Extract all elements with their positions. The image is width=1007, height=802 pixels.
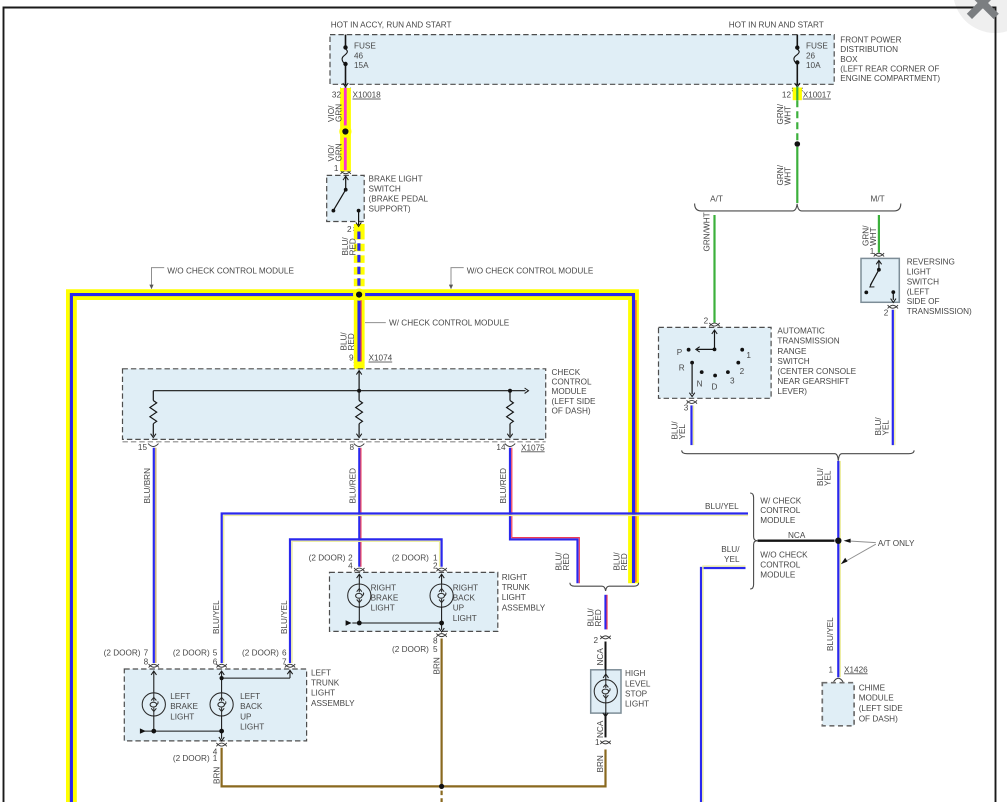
wire BLU/RED stripe — [360, 448, 362, 567]
fuse F26 10A element — [794, 35, 799, 86]
svg-text:X1075: X1075 — [521, 443, 545, 452]
wire BLU/YEL ATRS pin3 — [690, 405, 692, 445]
svg-text:(2 DOOR): (2 DOOR) — [173, 754, 210, 763]
svg-text:W/O CHECK CONTROL MODULE: W/O CHECK CONTROL MODULE — [467, 267, 594, 276]
wire GRN/WHT dashed — [796, 100, 798, 141]
svg-text:(2 DOOR): (2 DOOR) — [392, 554, 429, 563]
reversing switch arrow up — [876, 260, 881, 264]
svg-text:2: 2 — [884, 309, 889, 318]
svg-text:HOT IN RUN AND START: HOT IN RUN AND START — [729, 21, 824, 30]
svg-text:1: 1 — [595, 738, 600, 747]
front power distribution box (fuse box) — [330, 35, 834, 85]
brace: A/T - M/T split — [695, 204, 901, 211]
connector reversing switch pin 1 — [874, 253, 884, 256]
svg-text:6: 6 — [282, 648, 287, 657]
svg-text:GRN/WHT: GRN/WHT — [862, 225, 878, 246]
svg-text:X10018: X10018 — [353, 91, 382, 100]
svg-text:X1426: X1426 — [844, 665, 868, 674]
wire NCA upper — [605, 642, 607, 670]
wire NCA — [758, 540, 835, 542]
svg-text:12: 12 — [782, 91, 792, 100]
svg-text:2: 2 — [593, 636, 598, 645]
svg-text:(2 DOOR): (2 DOOR) — [309, 554, 346, 563]
svg-text:X10017: X10017 — [803, 91, 832, 100]
wire BLU/YEL stripe reversing — [894, 310, 896, 445]
ATRS contact dot — [700, 370, 704, 374]
svg-text:X1074: X1074 — [369, 354, 393, 363]
ground-side triangle left trunk — [140, 728, 146, 733]
connector right trunk ground pin — [436, 634, 446, 637]
reversing switch left contact — [864, 291, 868, 295]
svg-text:GRN/WHT: GRN/WHT — [703, 212, 712, 251]
wire BLU/RED junction to X1074 (blue core) — [357, 300, 360, 362]
junction of highlighted loop — [356, 292, 362, 298]
ATRS contact dot — [740, 348, 744, 352]
svg-text:RIGHTBRAKELIGHT: RIGHTBRAKELIGHT — [371, 583, 399, 612]
svg-text:BRN: BRN — [596, 755, 605, 772]
leader: W/O check control module right — [451, 268, 464, 286]
svg-text:NCA: NCA — [596, 648, 605, 666]
wire GRN/WHT solid — [796, 147, 798, 203]
svg-text:A/T ONLY: A/T ONLY — [878, 539, 915, 548]
svg-text:A/T: A/T — [710, 194, 723, 203]
bus junction at mid resistor — [357, 389, 361, 393]
connector X1075 boundary line — [123, 441, 546, 443]
svg-text:BLU/YEL: BLU/YEL — [826, 617, 835, 651]
left trunk light assembly box — [124, 669, 306, 741]
arrowhead at wire — [841, 558, 848, 564]
svg-text:1: 1 — [334, 164, 339, 173]
brake light switch upper contact — [344, 188, 348, 192]
svg-text:5: 5 — [213, 648, 218, 657]
wire BLU/YEL main to chime — [837, 461, 839, 677]
svg-text:9: 9 — [349, 354, 354, 363]
automatic transmission range switch box — [659, 327, 772, 398]
svg-text:BLU/RED: BLU/RED — [555, 552, 571, 571]
svg-text:YEL: YEL — [724, 555, 740, 564]
connector X1075 pin 15 cup — [148, 444, 158, 447]
reversing switch blade — [870, 270, 879, 286]
wire highlight: main highlighted circuit loop (yellow) — [71, 295, 633, 802]
arrow into left trunk pin 6/7 — [287, 670, 292, 674]
junction NCA / BLU/YEL — [835, 538, 841, 544]
svg-text:2: 2 — [704, 316, 709, 325]
wire BLU/YEL backup lights net — [290, 539, 442, 663]
wire BLU/YEL stripe — [224, 515, 748, 663]
connector left backup light pin — [216, 664, 226, 667]
wire BLU/RED pin14 stripe — [512, 448, 580, 583]
svg-text:3: 3 — [684, 404, 689, 413]
connector ATRS pin 2 — [709, 323, 719, 326]
wire BLU/RED stripe right leg — [635, 300, 637, 582]
bus junction at right resistor — [508, 389, 512, 393]
bulb: high level stop light — [594, 680, 617, 703]
svg-text:BLU/RED: BLU/RED — [348, 468, 357, 504]
svg-text:14: 14 — [496, 443, 506, 452]
svg-text:1: 1 — [746, 351, 751, 360]
reversing switch blade arrowhead — [870, 282, 875, 287]
svg-text:BLU/BRN: BLU/BRN — [143, 468, 152, 504]
brake light switch blade — [333, 190, 345, 211]
svg-text:D: D — [712, 382, 718, 391]
wire highlight: X10017 stub (yellow) — [793, 88, 802, 101]
brake light switch lower contact — [357, 209, 361, 213]
svg-text:BLU/YEL: BLU/YEL — [705, 502, 739, 511]
check module resistor at x=359.1 — [356, 401, 363, 424]
check module resistor at x=153.3 — [150, 401, 157, 424]
leader: A/T only to junction — [849, 541, 876, 543]
svg-text:(2 DOOR): (2 DOOR) — [104, 648, 141, 657]
connector at brake light switch pin 1 — [341, 171, 351, 174]
leader arrowhead right — [449, 285, 453, 290]
check module resistor at x=510.0 — [507, 401, 514, 424]
svg-text:GRN/WHT: GRN/WHT — [776, 103, 792, 124]
wire BRN right trunk to ground bus — [441, 639, 443, 787]
svg-text:8: 8 — [144, 658, 149, 667]
svg-text:4: 4 — [348, 562, 353, 571]
svg-text:GRN/WHT: GRN/WHT — [776, 164, 792, 185]
svg-text:1: 1 — [828, 665, 833, 674]
left trunk internal bus — [142, 730, 221, 732]
svg-text:3: 3 — [730, 376, 735, 385]
brace: W/ and W/O check control module — [750, 493, 757, 589]
left trunk internal link 6/7 to backup — [222, 677, 290, 679]
ATRS R to pin 3 line — [691, 363, 693, 394]
svg-text:32: 32 — [332, 91, 342, 100]
svg-text:W/ CHECK CONTROL MODULE: W/ CHECK CONTROL MODULE — [389, 319, 510, 328]
svg-text:BLU/YEL: BLU/YEL — [212, 600, 221, 634]
connector X10018 pin 32 — [340, 88, 350, 91]
svg-text:BRN: BRN — [212, 767, 221, 784]
wire BLU/YEL w/ check control module horizontal — [222, 514, 748, 664]
wire BLU/YEL W/O check drop — [701, 568, 746, 802]
wire BRN dashed continuation — [441, 791, 443, 802]
ATRS contact dot — [687, 348, 691, 352]
arrowhead at junction — [844, 539, 851, 543]
svg-text:2: 2 — [347, 225, 352, 234]
svg-text:7: 7 — [144, 648, 149, 657]
svg-text:(2 DOOR): (2 DOOR) — [242, 648, 279, 657]
svg-text:BLU/: BLU/ — [721, 545, 740, 554]
svg-text:1: 1 — [213, 754, 218, 763]
right trunk light assembly box — [330, 572, 498, 631]
svg-text:(2 DOOR): (2 DOOR) — [392, 645, 429, 654]
svg-text:8: 8 — [349, 443, 354, 452]
splice junction on VIO/GRN wire — [342, 128, 348, 134]
leader: W/O check control module left — [152, 268, 165, 286]
leader: W/ check control module — [365, 322, 386, 324]
ATRS entry arrow — [712, 330, 717, 334]
connector X1075 pin 8 cup — [354, 444, 364, 447]
svg-text:N: N — [697, 379, 703, 388]
svg-text:BLU/RED: BLU/RED — [340, 332, 356, 351]
bulb: right back up light — [430, 584, 453, 607]
bulb: left brake light — [142, 693, 165, 716]
wire BLU/YEL W/O stripe — [703, 566, 746, 802]
svg-text:VIO/GRN: VIO/GRN — [327, 143, 343, 161]
ground bus junction — [439, 784, 444, 789]
connector X10017 pin 12 — [792, 88, 802, 91]
wire BLU/RED dashed (W/ check control module) — [357, 232, 360, 290]
wire BLU/RED pin8 to right brake light — [358, 448, 360, 567]
wire BLU/RED pin14 to brace — [510, 448, 578, 583]
svg-text:M/T: M/T — [871, 194, 885, 203]
wire BLU/RED stripe stop light — [606, 595, 608, 630]
svg-text:BLU/YEL: BLU/YEL — [280, 600, 289, 634]
svg-text:15: 15 — [138, 443, 148, 452]
svg-text:R: R — [679, 364, 685, 373]
wire BLU/BRN stripe — [155, 448, 157, 663]
connector left trunk pin 6/7 — [285, 664, 295, 667]
wire VIO/GRN vertical — [344, 88, 347, 170]
ATRS contact dot — [690, 361, 694, 365]
wire NCA lower — [605, 713, 607, 737]
svg-text:P: P — [677, 348, 683, 357]
reversing light switch box — [861, 258, 899, 302]
close button X — [969, 0, 996, 16]
brake light switch box — [327, 175, 365, 221]
leader: A/T only to wire — [845, 544, 876, 561]
chime module box — [822, 683, 854, 726]
bulb: right brake light — [348, 584, 371, 607]
bulb: left back up light — [210, 693, 233, 716]
ATRS contact dot — [736, 361, 740, 365]
wire BRN ground bus — [222, 748, 606, 787]
wire BLU/BRN pin15 to left trunk — [153, 448, 155, 663]
connector stop light pin 2 — [600, 636, 610, 639]
wire BLU/YEL stripe ATRS — [693, 405, 695, 445]
wire BLU/YEL stripe main — [839, 461, 841, 677]
splice on GRN/WHT — [795, 141, 801, 147]
ATRS selector line to P — [697, 348, 715, 350]
connector stop light pin 1 — [600, 741, 610, 744]
connector left brake light pin — [149, 664, 159, 667]
brace: combine BLU/RED to stop light — [570, 583, 639, 591]
connector X1074 pin 9 — [354, 362, 364, 365]
check module internal bus — [153, 390, 525, 392]
svg-text:BLU/RED: BLU/RED — [613, 552, 629, 571]
ATRS contact dot — [713, 374, 717, 378]
svg-text:2: 2 — [740, 367, 745, 376]
svg-text:(2 DOOR): (2 DOOR) — [173, 648, 210, 657]
brake light switch contact arrow up — [343, 176, 348, 180]
wire BLU/YEL reversing switch pin2 — [892, 310, 894, 445]
high level stop light box — [591, 670, 621, 713]
connector at brake light switch pin 2 — [354, 227, 364, 230]
wire BLU/YEL backup stripe — [292, 541, 440, 663]
ground-side triangle right trunk — [346, 620, 352, 625]
wire GRN/WHT M/T branch — [878, 215, 880, 253]
svg-text:BRN: BRN — [433, 657, 442, 674]
svg-text:VIO/GRN: VIO/GRN — [327, 104, 343, 122]
leader arrowhead left — [149, 285, 153, 290]
svg-text:BLU/RED: BLU/RED — [341, 237, 357, 256]
svg-text:BLU/RED: BLU/RED — [587, 608, 603, 627]
brace: combine A/T and M/T BLU/YEL — [682, 450, 914, 460]
wire highlight: VIO/GRN fuse output (yellow) — [340, 88, 351, 171]
check module entry arrow — [356, 371, 361, 375]
reversing switch right contact — [891, 290, 895, 294]
svg-text:NCA: NCA — [788, 531, 806, 540]
check control module box — [123, 369, 546, 440]
connector right backup light pin — [436, 568, 446, 571]
connector X1075 pin 14 cup — [505, 444, 515, 447]
connector right brake light pin — [354, 568, 364, 571]
right trunk internal bus — [352, 622, 441, 624]
wire highlight: brake switch pin2 dashed (yellow) — [354, 232, 365, 289]
svg-text:NCA: NCA — [596, 720, 605, 738]
svg-text:W/O CHECK CONTROL MODULE: W/O CHECK CONTROL MODULE — [167, 267, 294, 276]
connector ATRS pin 3 — [687, 400, 697, 403]
wire BLU/RED main loop (blue core) — [71, 295, 633, 802]
fuse F46 15A element — [342, 35, 347, 86]
svg-text:5: 5 — [433, 645, 438, 654]
connector reversing switch pin 2 — [888, 305, 898, 308]
wire GRN/WHT A/T branch — [713, 215, 715, 323]
connector X1426 pin 1 entry arc — [834, 678, 843, 682]
ATRS contact dot — [726, 370, 730, 374]
close button circle — [953, 0, 1007, 33]
wire BLU/RED to stop light — [604, 595, 606, 630]
wire GRN/WHT stub in highlight — [796, 87, 798, 101]
junction above left backup bulb — [220, 676, 224, 680]
reversing switch upper contact — [877, 268, 881, 272]
svg-text:BLU/RED: BLU/RED — [499, 468, 508, 504]
connector left trunk ground pin — [216, 743, 226, 746]
svg-text:1: 1 — [870, 247, 875, 256]
svg-text:HOT IN ACCY, RUN AND START: HOT IN ACCY, RUN AND START — [331, 21, 452, 30]
wire highlight: brake switch pin2 stub (yellow) — [354, 224, 365, 232]
wire highlight: junction to X1074 (yellow) — [354, 300, 365, 370]
